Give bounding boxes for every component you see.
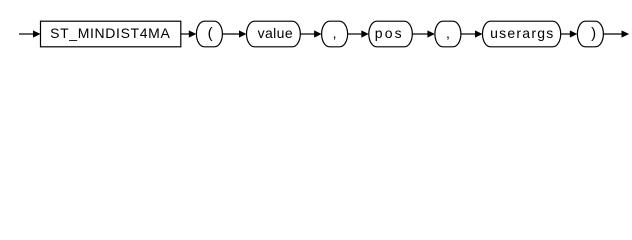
svg-text:,: ,: [333, 25, 337, 41]
svg-text:): ): [591, 25, 596, 42]
svg-text:userargs: userargs: [490, 25, 554, 41]
svg-text:pos: pos: [375, 25, 404, 41]
svg-text:,: ,: [446, 25, 450, 41]
svg-text:ST_MINDIST4MA: ST_MINDIST4MA: [50, 25, 170, 41]
svg-text:(: (: [208, 25, 213, 42]
svg-text:value: value: [258, 25, 293, 41]
